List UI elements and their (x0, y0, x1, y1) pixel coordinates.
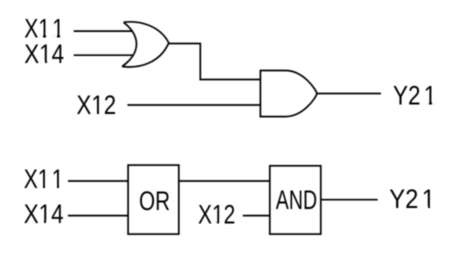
AND block B2 (270, 166, 321, 234)
wire X14 to OR block (68, 215, 128, 217)
wire X12 to AND gate (127, 104, 260, 106)
svg-text:X14: X14 (24, 199, 64, 229)
wire OR gate output to AND gate (with two corners) (169, 44, 261, 80)
wire X12 to AND block (243, 215, 270, 217)
svg-text:Y2: Y2 (393, 80, 421, 110)
AND gate U2 (260, 71, 317, 117)
svg-text:X14: X14 (24, 39, 64, 69)
wire X11 to OR gate (74, 30, 133, 32)
svg-text:OR: OR (139, 186, 170, 216)
svg-text:1: 1 (52, 164, 64, 194)
wire AND gate output to Y21 (317, 93, 381, 95)
wire X11 to OR block (68, 180, 128, 182)
svg-text:Y2: Y2 (389, 184, 418, 214)
wire X14 to OR gate (74, 54, 133, 56)
OR block B1 (128, 165, 179, 234)
wire AND block output to Y21 (321, 199, 378, 201)
svg-text:AND: AND (276, 185, 317, 215)
OR gate U1 (122, 22, 169, 67)
svg-text:X12: X12 (198, 200, 235, 230)
svg-text:1: 1 (424, 80, 437, 110)
svg-text:X1: X1 (24, 164, 50, 194)
white masks trimming serif feet of digit 1 glyphs (39, 36, 436, 225)
wire OR block output to AND block (179, 180, 270, 182)
svg-text:X12: X12 (77, 90, 117, 120)
svg-text:1: 1 (422, 184, 435, 214)
